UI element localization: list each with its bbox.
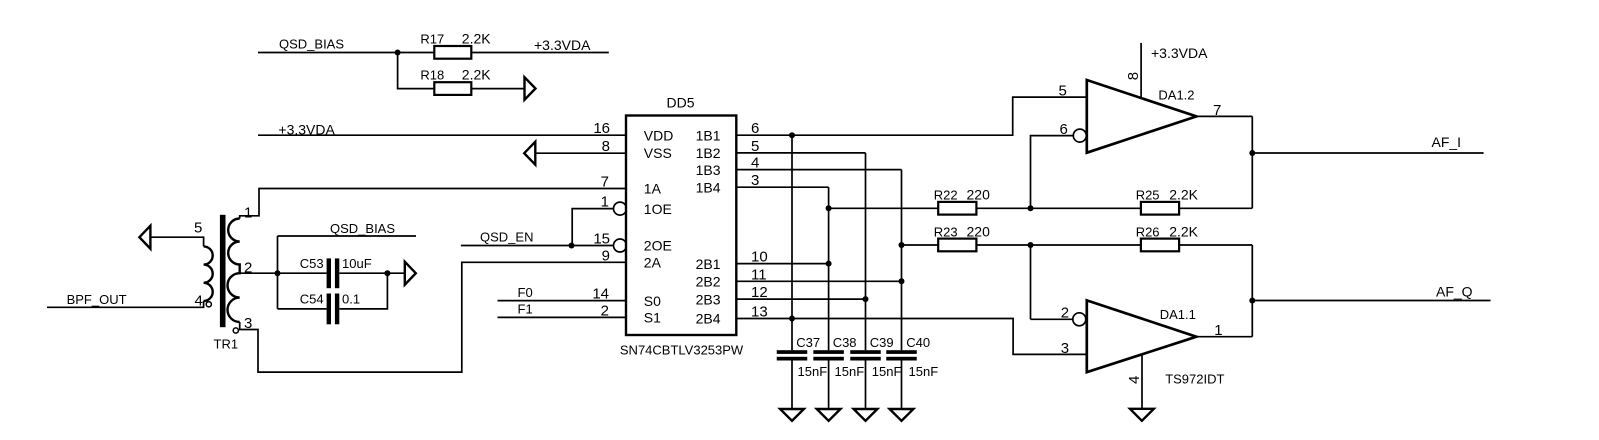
svg-text:15: 15 [593,231,610,248]
svg-text:BPF_OUT: BPF_OUT [67,292,127,307]
svg-text:S0: S0 [644,293,661,309]
svg-text:TR1: TR1 [214,336,239,351]
svg-text:15nF: 15nF [909,364,939,379]
svg-text:7: 7 [601,174,609,191]
svg-text:C53: C53 [300,256,324,271]
svg-text:220: 220 [967,223,991,239]
svg-text:5: 5 [194,219,202,236]
svg-text:2B2: 2B2 [696,274,721,290]
svg-text:15nF: 15nF [798,364,828,379]
svg-text:C39: C39 [870,335,894,350]
svg-text:2: 2 [601,302,609,319]
svg-text:2.2K: 2.2K [462,67,491,83]
svg-text:6: 6 [1060,121,1068,138]
svg-text:8: 8 [602,138,610,155]
svg-text:R22: R22 [934,187,958,202]
svg-text:3: 3 [751,172,759,189]
svg-text:4: 4 [195,292,203,309]
svg-text:15nF: 15nF [872,364,902,379]
svg-text:R18: R18 [420,68,444,83]
svg-text:9: 9 [602,247,610,264]
svg-text:R17: R17 [420,31,444,46]
svg-text:5: 5 [1059,83,1067,100]
svg-text:7: 7 [1213,102,1221,119]
svg-text:+3.3VDA: +3.3VDA [1151,45,1208,61]
svg-text:4: 4 [751,155,759,172]
svg-text:DA1.1: DA1.1 [1160,307,1196,322]
svg-text:QSD_BIAS: QSD_BIAS [279,36,344,51]
svg-text:AF_I: AF_I [1432,134,1462,150]
svg-text:1B2: 1B2 [696,145,721,161]
svg-text:2: 2 [1061,304,1069,321]
svg-text:C37: C37 [796,335,820,350]
svg-text:VDD: VDD [644,127,674,143]
svg-text:1A: 1A [644,181,662,197]
svg-text:8: 8 [1125,72,1142,80]
svg-text:+3.3VDA: +3.3VDA [278,121,335,137]
svg-text:1B3: 1B3 [696,162,721,178]
svg-text:11: 11 [751,266,767,283]
svg-text:10uF: 10uF [342,256,372,271]
svg-text:R23: R23 [934,224,958,239]
svg-text:2OE: 2OE [644,238,672,254]
svg-text:QSD_EN: QSD_EN [480,229,533,244]
svg-text:2B1: 2B1 [696,256,721,272]
svg-text:5: 5 [751,138,759,155]
svg-text:2.2K: 2.2K [1169,223,1198,239]
svg-text:R25: R25 [1136,187,1160,202]
svg-text:AF_Q: AF_Q [1436,284,1473,300]
svg-text:F0: F0 [518,285,533,300]
svg-text:0.1: 0.1 [342,292,360,307]
svg-text:F1: F1 [518,302,533,317]
svg-text:2.2K: 2.2K [1169,186,1198,202]
svg-text:10: 10 [751,249,768,266]
svg-text:SN74CBTLV3253PW: SN74CBTLV3253PW [620,343,744,358]
svg-text:220: 220 [967,186,991,202]
svg-text:1B4: 1B4 [696,179,721,195]
svg-text:2A: 2A [644,255,662,271]
svg-text:QSD_BIAS: QSD_BIAS [330,221,395,236]
svg-text:R26: R26 [1136,224,1160,239]
svg-text:6: 6 [751,120,759,137]
svg-text:1: 1 [601,194,609,211]
svg-text:1B1: 1B1 [696,127,721,143]
svg-text:2B3: 2B3 [696,291,721,307]
svg-text:TS972IDT: TS972IDT [1165,372,1224,387]
svg-text:3: 3 [244,315,252,332]
svg-text:1: 1 [244,205,252,222]
svg-text:16: 16 [593,120,610,137]
svg-text:C40: C40 [906,335,930,350]
svg-text:VSS: VSS [644,145,672,161]
svg-text:2B4: 2B4 [696,311,721,327]
svg-text:S1: S1 [644,310,661,326]
svg-text:15nF: 15nF [835,364,865,379]
svg-text:1: 1 [1214,322,1222,339]
svg-text:+3.3VDA: +3.3VDA [534,37,591,53]
svg-text:13: 13 [751,304,768,321]
svg-text:C54: C54 [300,292,324,307]
svg-text:C38: C38 [833,335,857,350]
svg-text:12: 12 [751,284,768,301]
svg-text:1OE: 1OE [644,201,672,217]
svg-text:3: 3 [1061,340,1069,357]
svg-text:2.2K: 2.2K [462,30,491,46]
svg-text:4: 4 [1126,376,1143,384]
svg-text:DA1.2: DA1.2 [1158,88,1194,103]
svg-text:14: 14 [592,285,609,302]
svg-text:DD5: DD5 [667,95,695,111]
